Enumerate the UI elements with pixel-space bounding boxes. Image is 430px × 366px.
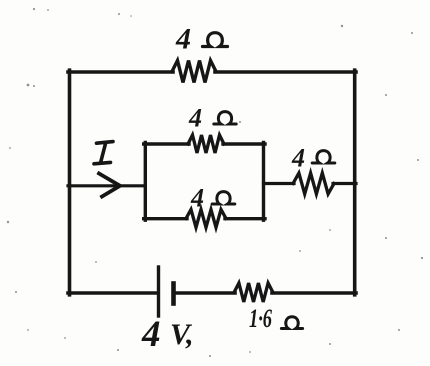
wire outer top left segment: [68, 70, 173, 74]
wire middle left with current: [68, 184, 145, 187]
wire resistor 1.6 to bottom right: [272, 291, 356, 295]
battery long plate: [157, 267, 160, 316]
current arrow head: [99, 174, 120, 197]
inner box bottom edge left segment: [144, 217, 187, 220]
svg-text:1·6: 1·6: [249, 304, 272, 333]
inner box left edge: [144, 143, 147, 221]
wire bottom left segment: [68, 291, 157, 295]
label R5 value 1.6 ohm: [249, 304, 303, 333]
wire outer top right segment: [215, 70, 356, 74]
resistor R5 1.6ohm zigzag: [234, 283, 273, 302]
inner box top edge right segment: [223, 142, 265, 145]
svg-text:4: 4: [190, 184, 204, 213]
label current I: [94, 142, 113, 164]
resistor R2 4ohm inner top zigzag: [188, 135, 224, 153]
inner box right edge: [262, 143, 265, 221]
resistor R3 4ohm inner bottom zigzag: [186, 210, 226, 228]
wire outer right vertical: [353, 70, 357, 295]
svg-text:4: 4: [291, 144, 305, 173]
wire R4 to outer right edge: [333, 182, 356, 185]
label battery value 4 V,: [141, 314, 194, 355]
svg-text:V,: V,: [170, 318, 194, 351]
svg-text:4: 4: [141, 314, 161, 355]
svg-text:4: 4: [175, 23, 191, 56]
label R3 value 4 ohm (inner bottom): [190, 184, 235, 213]
wire outer left vertical: [68, 70, 72, 295]
inner box bottom edge right segment: [225, 217, 265, 220]
wire battery to resistor 1.6: [175, 291, 235, 295]
svg-text:4: 4: [188, 104, 202, 133]
label R2 value 4 ohm (inner top): [188, 104, 236, 133]
inner box top edge left segment: [144, 142, 189, 145]
battery short plate: [171, 284, 176, 304]
resistor R1 4ohm top zigzag: [172, 61, 216, 83]
wire middle right from inner box to R4: [264, 182, 295, 185]
resistor R4 4ohm right zigzag: [293, 173, 334, 194]
label R4 value 4 ohm (right): [291, 144, 335, 173]
label R1 value 4 ohm (top): [175, 23, 228, 56]
